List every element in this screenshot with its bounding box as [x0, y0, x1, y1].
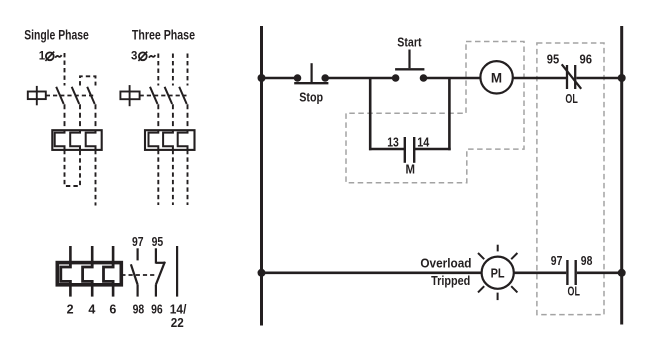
contact blade pole 1 (three-phase) [150, 87, 158, 104]
wire pole 1 to overload (three-phase) [157, 104, 159, 130]
svg-text:1: 1 [39, 50, 46, 62]
wire pole 2 to overload (single-phase) [79, 104, 81, 130]
svg-text:2: 2 [67, 303, 74, 317]
node: rail L1 rung2 junction [258, 269, 266, 277]
wire terminal 2 (OL detail, bottom) [69, 285, 72, 297]
contact OL 97-98 NO (ladder) [567, 260, 575, 285]
wire branch bottom right [414, 148, 451, 151]
wire: three-phase tail T2 (dashed) [172, 150, 174, 205]
svg-text:95: 95 [152, 235, 164, 249]
svg-text:OL: OL [568, 285, 581, 299]
wire: three-phase tail T3 (dashed) [187, 150, 189, 205]
rail L1 (left) [260, 26, 263, 326]
wire terminal 1 (OL detail, top) [69, 246, 72, 263]
svg-text:4: 4 [88, 303, 95, 317]
overload relay OL body (detail, thick box with heaters) [57, 263, 121, 285]
wire branch bottom left [369, 148, 405, 151]
coil M contactor (three-phase) [120, 85, 139, 106]
wire 14/22 (OL detail) [176, 246, 178, 297]
terminal label 4 [88, 303, 95, 317]
svg-text:Start: Start [397, 35, 422, 50]
svg-text:98: 98 [133, 303, 145, 317]
svg-text:Tripped: Tripped [431, 274, 470, 288]
svg-text:95: 95 [547, 52, 559, 66]
wire: three-phase line L1 (dashed, top) [157, 54, 159, 86]
mechanical linkage (OL detail, dashed) [121, 274, 156, 276]
wire terminal 3 (OL detail, top) [91, 246, 94, 263]
coil M (motor starter) [480, 61, 512, 93]
wire rung1: Start to coil M [427, 77, 481, 80]
overload heater block (single-phase) [52, 130, 101, 150]
contact blade pole 3 (single-phase) [87, 87, 95, 104]
label 1-phase "1 phi ~" [39, 50, 62, 62]
mechanical linkage (single-phase, dashed) [46, 95, 95, 97]
wire: three-phase line L3 (dashed, top) [187, 54, 189, 86]
pin label 96 (OL detail) [151, 303, 163, 317]
wire: single-phase motor loop poles 1-2 (dashed U) [65, 150, 81, 186]
svg-text:M: M [405, 162, 415, 177]
contact OL 95-96 NC (ladder) [562, 64, 582, 89]
wire terminal 5 (OL detail, top) [112, 246, 115, 263]
terminal label 6 [109, 303, 116, 317]
svg-text:Single Phase: Single Phase [24, 27, 89, 42]
wire rung2: OL contact to rail [577, 271, 622, 274]
svg-text:96: 96 [151, 303, 163, 317]
wire pole 1 to overload (single-phase) [64, 104, 66, 130]
label OL (rung1) [565, 92, 578, 106]
terminal label 2 [67, 303, 74, 317]
wire terminal 4 (OL detail, bottom) [91, 285, 94, 297]
wire rung1: coil M to OL contact [513, 77, 566, 80]
wire: single-phase line L1 (dashed, top) [64, 53, 66, 86]
rail L2 (right) [620, 26, 623, 325]
svg-text:M: M [491, 70, 502, 85]
label OL (rung2) [568, 285, 581, 299]
svg-text:22: 22 [171, 316, 184, 330]
pilot light PL [478, 245, 517, 300]
label Start [397, 35, 422, 50]
wire terminal 6 (OL detail, bottom) [112, 285, 115, 297]
svg-text:13: 13 [387, 135, 399, 149]
coil M contactor (single-phase) [28, 86, 46, 105]
svg-text:Overload: Overload [420, 256, 471, 270]
pin label 97 (ladder) [551, 254, 563, 268]
wire rung2: pilot light to OL contact [514, 271, 566, 274]
pin label 14/ (OL detail) [170, 303, 187, 317]
node: rail L2 rung1 junction [618, 74, 626, 82]
svg-text:14/: 14/ [170, 303, 187, 317]
svg-text:Three Phase: Three Phase [132, 27, 195, 42]
svg-text:98: 98 [581, 254, 593, 268]
wire branch left (holding circuit) [369, 78, 372, 150]
node: rail L1 rung1 junction [258, 74, 266, 82]
contact blade pole 1 (single-phase) [56, 87, 64, 104]
node: rail L2 rung2 junction [618, 269, 626, 277]
wire: single-phase jumper poles 2-3 (dashed) [80, 76, 96, 85]
wire rung1: OL contact to rail [577, 77, 622, 80]
pin label 13 [387, 135, 399, 149]
contact blade pole 2 (single-phase) [72, 87, 80, 104]
wire rung1: Stop to Start [328, 77, 393, 80]
wire pole 3 to overload (three-phase) [187, 104, 189, 130]
wire rung2: rail to pilot light [262, 271, 482, 274]
label M (auxiliary contact) [405, 162, 415, 177]
pushbutton Start (NO) [392, 50, 428, 82]
pushbutton Stop (NC) [294, 63, 329, 83]
overload boundary (gray dashed rectangle) [537, 43, 604, 315]
wire pole 3 to overload (single-phase) [95, 104, 97, 130]
pin label 22 (OL detail) [171, 316, 184, 330]
contact 97-98 NO (OL detail) [131, 248, 138, 296]
svg-text:14: 14 [417, 135, 429, 149]
svg-text:97: 97 [132, 235, 144, 249]
pin label 95 (OL detail) [152, 235, 164, 249]
wire branch right (holding circuit) [448, 78, 451, 150]
contact blade pole 2 (three-phase) [165, 87, 173, 104]
pin label 14 [417, 135, 429, 149]
svg-text:3: 3 [131, 50, 137, 62]
pin label 95 (ladder) [547, 52, 559, 66]
label 3-phase "3 phi ~" [131, 50, 155, 62]
label Overload [420, 256, 471, 270]
pin label 97 (OL detail) [132, 235, 144, 249]
wire: single-phase pole 3 tail (dashed) [95, 150, 97, 206]
contact blade pole 3 (three-phase) [179, 87, 187, 104]
mechanical linkage (three-phase, dashed) [140, 95, 187, 97]
title Three Phase [132, 27, 195, 42]
svg-text:OL: OL [565, 92, 578, 106]
wire pole 2 to overload (three-phase) [172, 104, 174, 130]
contact 95-96 NC (OL detail) [156, 248, 165, 296]
contactor boundary (gray dashed, stepped) [346, 42, 524, 183]
pin label 96 (ladder) [580, 52, 593, 66]
pin label 98 (ladder) [581, 254, 593, 268]
pin label 98 (OL detail) [133, 303, 145, 317]
svg-text:97: 97 [551, 254, 563, 268]
svg-text:Stop: Stop [299, 90, 323, 105]
svg-text:96: 96 [580, 52, 593, 66]
title Single Phase [24, 27, 89, 42]
wire rung1: rail to Stop [262, 77, 295, 80]
label Stop [299, 90, 323, 105]
contact M auxiliary 13-14 (NO) [405, 137, 414, 163]
overload heater block (three-phase) [145, 130, 195, 150]
wire: three-phase tail T1 (dashed) [157, 150, 159, 205]
svg-text:6: 6 [109, 303, 116, 317]
label Tripped [431, 274, 470, 288]
svg-text:PL: PL [491, 266, 505, 280]
wire: three-phase line L2 (dashed, top) [172, 54, 174, 86]
